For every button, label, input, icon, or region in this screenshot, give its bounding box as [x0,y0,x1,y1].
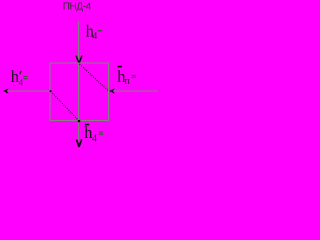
arrowhead: left wire pointing left [3,88,9,94]
wire: drain outlet (vertical, bottom) [78,121,80,140]
arrowhead: drain pointing down [77,140,82,147]
divider: vertical center line of heater box [78,63,80,121]
wire: condensate inlet (horizontal, right) [109,90,158,92]
prime mark [20,71,21,74]
dotted line: path from left port to bottom-center [51,91,79,120]
svg-text:п: п [125,76,131,87]
wire: steam inlet (vertical, top) [78,22,80,63]
heater box (rectangle) [50,63,109,121]
junction dot at bottom-center [78,120,80,122]
svg-text:4: 4 [19,78,24,88]
wire: condensate outlet (horizontal, left) [7,90,50,92]
arrowhead: right wire pointing left into box [109,88,115,94]
junction dot at left port [50,90,52,92]
svg-text:4: 4 [92,31,97,42]
equals [132,75,136,76]
svg-text:4: 4 [92,133,97,144]
label: h-bar p = (condensate in enthalpy, right) [117,66,122,68]
label: h-bar 4 = (drain enthalpy, bottom) [85,124,89,126]
dash after h4 [98,30,103,32]
dotted line: steam path from top-center to right port [80,64,109,91]
svg-text:ПНД-4: ПНД-4 [63,2,92,13]
equals [99,132,103,133]
equals [23,76,27,77]
arrowhead: steam inlet pointing down into box [76,56,82,63]
